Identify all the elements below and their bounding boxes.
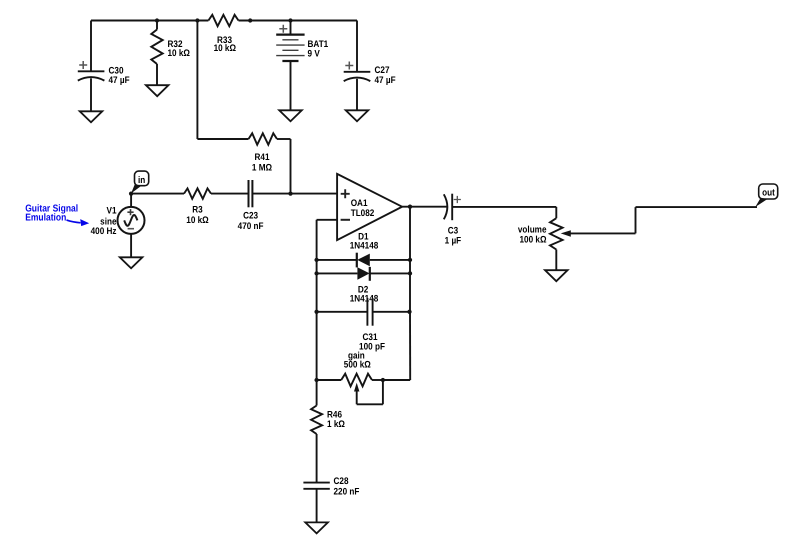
capacitor C31: [317, 298, 410, 353]
wire rail to R41: [197, 21, 248, 140]
svg-text:R41: R41: [255, 152, 271, 163]
op-amp OA1: [337, 174, 402, 240]
annotation guitar-signal: [25, 204, 89, 227]
svg-text:220 nF: 220 nF: [334, 486, 360, 497]
svg-text:100 kΩ: 100 kΩ: [520, 234, 547, 245]
wire R41 to node: [277, 139, 291, 194]
svg-text:out: out: [762, 188, 775, 199]
node D2 ends: [314, 271, 412, 275]
capacitor C27: [344, 21, 396, 111]
resistor R33: [208, 15, 238, 54]
node rail-R33: [248, 18, 252, 22]
svg-text:47 µF: 47 µF: [109, 75, 130, 86]
wire R3 to C23: [211, 193, 249, 195]
port out: [755, 184, 777, 207]
svg-text:10 kΩ: 10 kΩ: [168, 48, 191, 59]
potentiometer volume: [518, 218, 636, 270]
wire C3 to volume: [452, 207, 556, 218]
port in: [131, 171, 149, 193]
resistor R32: [151, 21, 190, 86]
resistor R3: [184, 188, 211, 226]
wire wiper to out: [636, 207, 758, 233]
svg-text:1N4148: 1N4148: [350, 293, 379, 304]
ground volume: [545, 270, 568, 281]
node rail-BAT1: [288, 18, 292, 22]
resistor R46: [311, 406, 345, 435]
capacitor C23: [238, 180, 264, 232]
wire in to R3: [131, 193, 184, 195]
node in-junction: [129, 191, 133, 195]
svg-text:Emulation: Emulation: [25, 213, 66, 224]
ground R32: [146, 85, 169, 96]
wire top rail left: [91, 20, 208, 22]
node output: [408, 205, 412, 209]
wire feedback right: [383, 207, 410, 380]
svg-text:400 Hz: 400 Hz: [91, 226, 117, 237]
node rail-R32: [155, 18, 159, 22]
svg-text:TL082: TL082: [351, 208, 375, 219]
svg-text:10 kΩ: 10 kΩ: [214, 43, 237, 54]
ground V1: [120, 257, 143, 268]
svg-text:9 V: 9 V: [308, 48, 321, 59]
svg-text:1 kΩ: 1 kΩ: [327, 419, 345, 430]
node D1 ends: [314, 258, 412, 262]
svg-text:V1: V1: [107, 206, 118, 217]
wire R46 to C28: [316, 434, 318, 483]
capacitor C28: [303, 476, 359, 522]
node R41-main: [288, 191, 292, 195]
capacitor C3: [444, 194, 462, 247]
wire top rail right: [239, 20, 358, 22]
resistor R41: [249, 133, 278, 173]
svg-text:1N4148: 1N4148: [350, 241, 379, 252]
ground C28: [305, 522, 328, 533]
diode D2: [317, 267, 410, 305]
source V1: [91, 194, 145, 258]
wire feedback left: [316, 220, 318, 406]
svg-text:47 µF: 47 µF: [375, 75, 396, 86]
svg-text:1 MΩ: 1 MΩ: [252, 163, 272, 174]
svg-text:1 µF: 1 µF: [445, 236, 462, 247]
wire inv-input: [317, 219, 338, 221]
svg-text:470 nF: 470 nF: [238, 221, 264, 232]
capacitor C30: [78, 21, 130, 112]
ground C30: [80, 111, 103, 122]
svg-text:10 kΩ: 10 kΩ: [186, 215, 209, 226]
potentiometer gain: [317, 350, 383, 404]
wire op-amp output: [402, 206, 448, 208]
ground BAT1: [279, 110, 302, 121]
wire C23 to op-amp: [252, 193, 337, 195]
node gain ends: [314, 378, 385, 382]
battery BAT1: [276, 21, 329, 111]
svg-text:R3: R3: [192, 205, 202, 216]
svg-text:500 kΩ: 500 kΩ: [344, 359, 371, 370]
svg-text:in: in: [138, 175, 145, 186]
ground C27: [346, 110, 369, 121]
node rail-R41: [195, 18, 199, 22]
diode D1: [317, 232, 410, 268]
node C31 ends: [314, 310, 411, 314]
